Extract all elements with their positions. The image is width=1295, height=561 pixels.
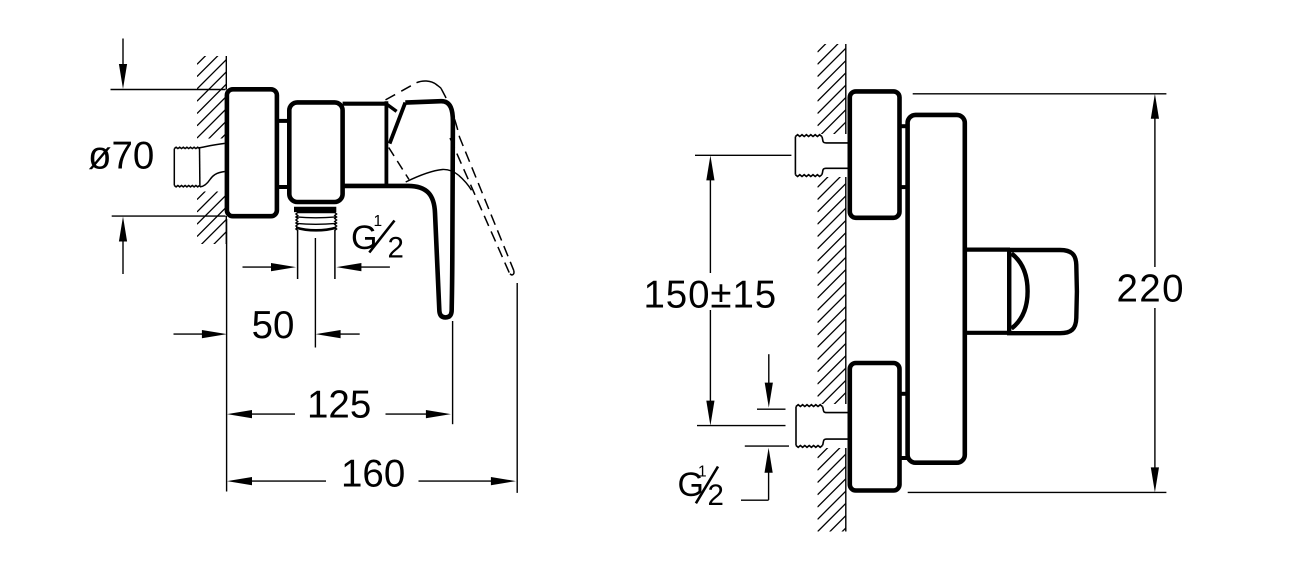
svg-text:1: 1 <box>374 213 383 230</box>
svg-text:1: 1 <box>698 463 707 480</box>
svg-text:150±15: 150±15 <box>644 274 778 317</box>
svg-text:2: 2 <box>388 232 404 265</box>
svg-text:ø70: ø70 <box>88 135 154 178</box>
svg-text:50: 50 <box>252 304 295 347</box>
svg-text:125: 125 <box>307 383 371 426</box>
svg-text:160: 160 <box>341 452 405 495</box>
svg-text:2: 2 <box>708 479 724 512</box>
svg-text:220: 220 <box>1117 268 1185 311</box>
